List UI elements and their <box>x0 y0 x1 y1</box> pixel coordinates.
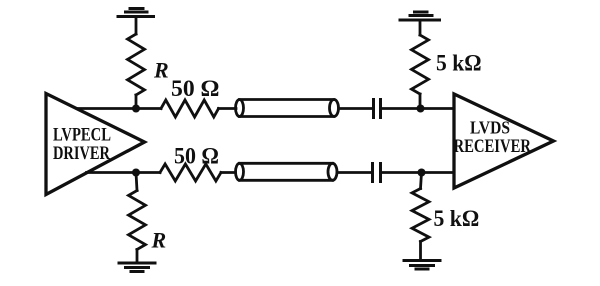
capacitor (bottom AC coupling) <box>373 164 381 182</box>
resistor 50 ohm (bottom) <box>160 164 221 181</box>
svg-text:LVDS: LVDS <box>470 118 510 138</box>
wire: driver output to 50 ohm resistor (top) <box>77 107 161 110</box>
transmission line (top) <box>236 100 339 117</box>
svg-text:DRIVER: DRIVER <box>53 144 110 164</box>
wire: transmission line to capacitor (top) <box>339 107 374 110</box>
wire: resistor R to node A <box>135 95 138 109</box>
supply rail symbol VCC (top-left, inverted ground) <box>118 9 154 17</box>
wire: capacitor to node D (bottom) <box>381 171 422 174</box>
wire: capacitor to node B (top) <box>381 107 421 110</box>
wire: node B to receiver input (top) <box>421 107 455 110</box>
node C: driver inverting output junction <box>132 169 140 177</box>
ground symbol (bottom-right) <box>404 261 440 270</box>
svg-text:RECEIVER: RECEIVER <box>454 137 532 157</box>
svg-text:R: R <box>153 58 169 83</box>
wire: node C to resistor R (bottom-left) <box>136 173 137 191</box>
svg-text:R: R <box>151 228 167 253</box>
resistor 50 ohm (top) <box>161 100 219 117</box>
supply rail symbol VCC (top-right, inverted ground) <box>400 12 440 20</box>
node A: driver noninverting output junction <box>132 105 140 113</box>
resistor 5 kohm (top-right pull-up) <box>412 35 429 94</box>
wire: node D to receiver input (bottom) <box>422 171 455 174</box>
svg-text:5 kΩ: 5 kΩ <box>434 206 480 231</box>
svg-text:5 kΩ: 5 kΩ <box>436 51 482 76</box>
wire: node B to 5k resistor (top-right) <box>419 94 422 109</box>
wire: top-left rail to resistor R <box>135 17 138 35</box>
svg-text:50 Ω: 50 Ω <box>174 143 219 168</box>
wire: resistor to ground (bottom-right) <box>419 242 422 261</box>
transmission line (bottom) <box>236 163 338 180</box>
resistor R (top-left pull-up) <box>128 34 145 95</box>
node D: receiver - input junction <box>418 169 426 177</box>
svg-text:LVPECL: LVPECL <box>53 126 111 146</box>
wire: 50 ohm to transmission line (top) <box>219 107 237 110</box>
ground symbol (bottom-left) <box>119 263 155 272</box>
wire: 50 ohm to transmission line (bottom) <box>221 171 236 174</box>
wire: node D to 5k resistor (bottom-right) <box>421 173 422 189</box>
driver U1 triangle (LVPECL) <box>46 94 145 195</box>
wire: driver inverting output to 50 ohm resistor (bottom) <box>87 171 161 174</box>
wire: resistor R to ground (bottom-left) <box>136 250 139 264</box>
svg-text:50 Ω: 50 Ω <box>171 76 220 101</box>
resistor 5 kohm (bottom-right pull-down) <box>412 189 429 242</box>
wire: transmission line to capacitor (bottom) <box>337 171 373 174</box>
resistor R (bottom-left pull-down) <box>129 191 146 250</box>
wire: 5k resistor to top-right rail <box>419 20 422 35</box>
node B: receiver + input junction <box>417 105 425 113</box>
receiver U2 triangle (LVDS) <box>454 94 554 188</box>
capacitor (top AC coupling) <box>374 100 381 118</box>
